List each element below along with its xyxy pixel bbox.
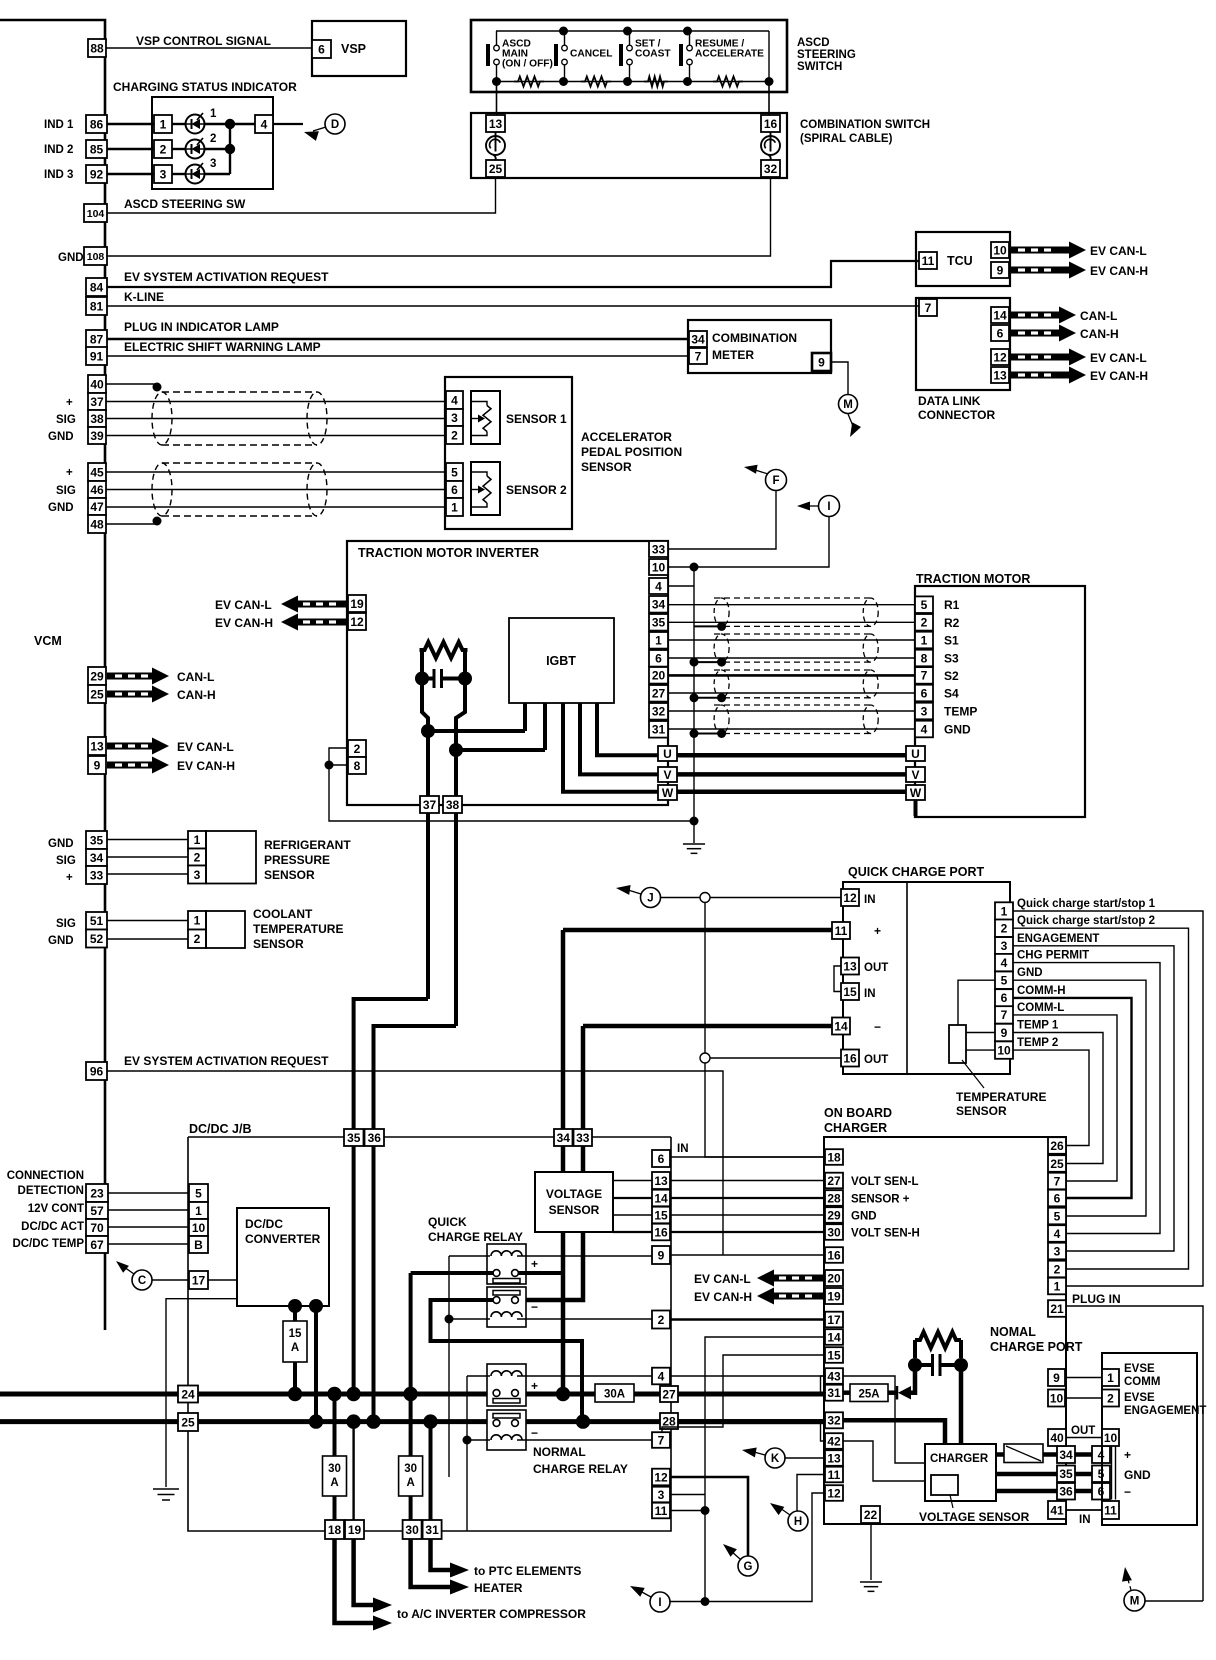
spiral cable symbol right (761, 132, 780, 160)
junction bus25 converter (309, 1414, 323, 1428)
arrow from K (754, 1452, 765, 1455)
pin QCP 5 (995, 972, 1013, 989)
svg-text:25: 25 (489, 162, 503, 176)
wire sensor2 SIG (46) (106, 489, 446, 491)
pin OBC 34 (1057, 1446, 1075, 1463)
pin VSP 6 (312, 40, 331, 58)
svg-text:12V CONT: 12V CONT (28, 1203, 84, 1215)
shield tube TM S1/S3 (714, 634, 878, 662)
pin TM 1 (S1) (915, 632, 933, 649)
pin OBC right 7 (1048, 1173, 1066, 1190)
svg-text:W: W (662, 786, 674, 800)
wire TM row 20-7 S2 (668, 674, 915, 677)
IGBT box U2 (509, 618, 614, 703)
pin TMI W (658, 785, 677, 800)
svg-text:7: 7 (658, 1433, 665, 1447)
svg-text:5: 5 (921, 598, 928, 612)
potentiometer sensor 2 (471, 462, 500, 515)
svg-text:38: 38 (446, 798, 460, 812)
pin OBC left 20 (825, 1270, 843, 1286)
svg-text:COMM-H: COMM-H (1017, 985, 1066, 997)
svg-text:S3: S3 (944, 652, 959, 666)
pin TM W (906, 785, 925, 800)
svg-text:31: 31 (827, 1386, 841, 1400)
pin DLC 6 (991, 325, 1009, 341)
pin TMI 1 (649, 632, 668, 649)
pin OBC left 32 (825, 1412, 843, 1428)
relay normal charge + (coil top) (487, 1364, 526, 1406)
relay normal charge - (coil bottom) (487, 1410, 526, 1450)
pin OBC left 19 (825, 1288, 843, 1304)
svg-text:SWITCH: SWITCH (797, 61, 842, 73)
pin TMI V (658, 767, 677, 782)
svg-text:47: 47 (90, 500, 104, 514)
svg-text:TEMPERATURE: TEMPERATURE (956, 1090, 1046, 1104)
svg-text:PLUG IN INDICATOR LAMP: PLUG IN INDICATOR LAMP (124, 320, 279, 334)
svg-text:32: 32 (764, 162, 778, 176)
wire node37 to IGBT leg1 (428, 729, 525, 733)
bus wire 25 right segment (519, 1419, 827, 1424)
svg-text:R2: R2 (944, 616, 960, 630)
svg-text:GND: GND (1017, 967, 1043, 979)
wire J to QCP 12 (660, 897, 841, 899)
svg-text:CAN-H: CAN-H (1080, 327, 1119, 341)
arrow CAN-H from VCM 25 (107, 686, 169, 703)
svg-text:CONNECTOR: CONNECTOR (918, 408, 995, 422)
wire VCM52 to coolant 2 (107, 938, 188, 940)
svg-text:87: 87 (90, 332, 104, 346)
wire V phase TMI to motor (677, 772, 906, 777)
wire QC relay coil2 to drop (449, 1318, 490, 1320)
svg-text:−: − (1124, 1485, 1131, 1499)
svg-text:51: 51 (90, 914, 104, 928)
svg-text:CONNECTION: CONNECTION (7, 1170, 84, 1182)
svg-text:4: 4 (1001, 956, 1008, 970)
pin QCP 3 (995, 937, 1013, 954)
pin J/B 35 (344, 1129, 364, 1146)
voltage sensor box (J/B) (535, 1172, 613, 1232)
svg-text:IND 3: IND 3 (44, 169, 73, 181)
wire J/B31 to PTC arrow (431, 1539, 452, 1570)
svg-text:7: 7 (921, 669, 928, 683)
wire - corner down (581, 1026, 586, 1146)
wire IND2 (85 to CSI 2) (107, 148, 154, 150)
wire TM row 1-1 S1 (668, 639, 915, 641)
pin QCP 15 (841, 983, 859, 1000)
wire VCM23 to J/B 5 (108, 1192, 189, 1194)
svg-text:EV CAN-H: EV CAN-H (177, 759, 235, 773)
pin TMI 20 (649, 667, 668, 684)
shield tube TM R1/R2 (714, 598, 878, 626)
DC/DC converter box (237, 1208, 329, 1306)
pin VCM 86 (86, 115, 107, 133)
svg-text:84: 84 (90, 280, 104, 294)
wire TM row 27-6 S4 (668, 692, 915, 694)
pin VCM 81 (86, 297, 107, 315)
wire sensor1 + (37) (106, 401, 446, 403)
svg-text:35: 35 (652, 616, 666, 630)
connector circle C (132, 1270, 152, 1290)
svg-text:to A/C INVERTER COMPRESSOR: to A/C INVERTER COMPRESSOR (397, 1607, 586, 1621)
svg-text:2: 2 (451, 428, 458, 442)
svg-text:A: A (406, 1477, 414, 1489)
svg-text:EVSE: EVSE (1124, 1392, 1155, 1404)
wire IGBT leg3 to W (563, 703, 658, 792)
svg-text:25: 25 (90, 687, 104, 701)
pin TMI 10 (649, 559, 668, 575)
svg-text:VOLT SEN-H: VOLT SEN-H (851, 1228, 920, 1240)
arrow EV CAN-L into OBC 20 (757, 1270, 825, 1287)
svg-text:12: 12 (843, 891, 857, 905)
wire charger out 36 row (996, 1489, 1057, 1494)
wire J/B 4 to OBC 43 (670, 1375, 825, 1377)
svg-text:11: 11 (922, 254, 935, 268)
wire TMI 8 tie down to ground rail (329, 765, 694, 821)
pin TCU 9 (991, 262, 1009, 278)
wire relay1 contact right to VS tap (519, 1271, 564, 1275)
pin OBC right 26 (1048, 1137, 1066, 1154)
pin VCM 25 (88, 685, 106, 703)
pin APP 2 (446, 426, 463, 444)
pin APP 5 (446, 463, 463, 481)
svg-text:REFRIGERANT: REFRIGERANT (264, 838, 351, 852)
pin J/B 28 (660, 1413, 678, 1429)
pin CSI 2 (154, 140, 172, 158)
pin OBC right 5 (1048, 1208, 1066, 1225)
bracket QCP 13-15 (834, 966, 841, 992)
pin OBC right 6 (1048, 1190, 1066, 1207)
pin VCM 84 (86, 278, 107, 296)
connector circle F (766, 470, 787, 491)
svg-text:I: I (658, 1597, 661, 1609)
svg-text:13: 13 (843, 959, 857, 973)
wire + out of voltage sensor down to bus24 tap (561, 1232, 566, 1394)
svg-text:M: M (843, 399, 853, 411)
svg-text:S2: S2 (944, 669, 959, 683)
pin VCM 67 (86, 1236, 108, 1253)
wire J/B 2 to OBC 17 (670, 1318, 825, 1321)
svg-text:35: 35 (347, 1131, 361, 1145)
svg-text:16: 16 (764, 117, 778, 131)
bracket OBC 32 to 42 (821, 1420, 827, 1441)
svg-text:37: 37 (423, 798, 437, 812)
svg-text:30: 30 (827, 1225, 841, 1239)
junction bus25 relay2 jog (576, 1414, 590, 1428)
svg-text:14: 14 (654, 1191, 668, 1205)
svg-text:V: V (663, 768, 671, 782)
svg-text:COOLANT: COOLANT (253, 907, 313, 921)
wire shield drain tube3 (694, 697, 722, 699)
svg-text:SIG: SIG (56, 414, 76, 426)
svg-text:10: 10 (652, 560, 666, 574)
svg-text:43: 43 (827, 1369, 841, 1383)
svg-text:CHG PERMIT: CHG PERMIT (1017, 950, 1089, 962)
junction converter out left (288, 1299, 302, 1313)
junction LED1 common (225, 119, 235, 129)
pin TMI 31 (649, 721, 668, 738)
svg-text:2: 2 (658, 1313, 665, 1327)
svg-text:IGBT: IGBT (546, 654, 576, 668)
svg-text:CHARGER: CHARGER (824, 1121, 887, 1135)
pin NCP 4 (1092, 1446, 1110, 1463)
wire ELECTRIC SHIFT WARNING LAMP (VCM 91 to meter 7) (107, 355, 689, 357)
svg-text:25: 25 (181, 1415, 195, 1429)
svg-text:15: 15 (843, 985, 857, 999)
svg-text:A: A (330, 1477, 338, 1489)
pin OBC 35 (1057, 1466, 1075, 1483)
svg-text:19: 19 (827, 1289, 841, 1303)
svg-text:+: + (66, 397, 73, 409)
svg-text:1: 1 (1107, 1371, 1114, 1385)
junction snubber OBC right (954, 1358, 968, 1372)
pin TMI 35 (649, 614, 668, 631)
wire J/B 28 to OBC 32 (678, 1419, 826, 1424)
pin J/B 27 (660, 1386, 678, 1402)
svg-text:CAN-L: CAN-L (177, 670, 214, 684)
wire NC coil drop vertical (466, 1376, 468, 1531)
wire OBC35 to NCP5 (1075, 1472, 1092, 1477)
junction QC coil2 (445, 1315, 454, 1324)
pin OBC left 42 (825, 1433, 843, 1449)
arrow to D (304, 131, 319, 141)
svg-text:8: 8 (921, 651, 928, 665)
svg-text:24: 24 (181, 1387, 195, 1401)
svg-text:14: 14 (827, 1330, 841, 1344)
fuse 30A no.1 (323, 1456, 347, 1496)
svg-text:4: 4 (658, 1369, 665, 1383)
svg-text:COMBINATION SWITCH: COMBINATION SWITCH (800, 119, 930, 131)
pin VCM 23 (86, 1184, 108, 1202)
arrow EV CAN-L from DLC 12 (1010, 349, 1086, 366)
svg-text:SENSOR 2: SENSOR 2 (506, 483, 567, 497)
wire K to OBC 13 (785, 1457, 825, 1459)
svg-text:EV SYSTEM ACTIVATION REQUEST: EV SYSTEM ACTIVATION REQUEST (124, 270, 329, 284)
connector circle I bottom (650, 1592, 670, 1612)
pin J/B 18 (325, 1520, 344, 1539)
pin TM U (906, 746, 925, 761)
svg-text:(ON / OFF): (ON / OFF) (502, 59, 553, 70)
svg-text:DETECTION: DETECTION (18, 1185, 84, 1197)
arrow CAN-L from DLC 14 (1010, 307, 1076, 324)
pin refrigerant 1 (188, 831, 206, 849)
wire CSI 2 to LED2 (172, 148, 185, 150)
pin OBC left 12 (825, 1485, 843, 1501)
svg-text:G: G (744, 1561, 753, 1573)
pin J/B right 11 (652, 1503, 670, 1519)
capacitor snubber OBC (931, 1354, 934, 1376)
wire voltage sensor to J/B 13 (613, 1180, 652, 1182)
svg-text:GND: GND (58, 252, 84, 264)
svg-text:92: 92 (90, 167, 104, 181)
pin J/B 24 (178, 1386, 198, 1403)
svg-text:17: 17 (192, 1273, 206, 1287)
resistor ASCD R3 (644, 77, 668, 87)
svg-text:70: 70 (90, 1221, 104, 1235)
wire node37 down to pin 37 (426, 731, 430, 800)
junction shield 2 drain (153, 517, 162, 526)
svg-text:CONVERTER: CONVERTER (245, 1232, 321, 1246)
junction ASCD rail dots (559, 27, 568, 36)
svg-text:COMBINATION: COMBINATION (712, 331, 797, 345)
pin TMI 34 (649, 596, 668, 613)
svg-text:13: 13 (90, 739, 104, 753)
on board charger box (824, 1137, 1066, 1524)
svg-text:6: 6 (1001, 991, 1008, 1005)
wire OBC41 to NCP11 (1066, 1509, 1102, 1511)
wire OBC10 to NCP2 EVSE ENGAGEMENT (1065, 1397, 1102, 1399)
wire H to OBC 11 (797, 1475, 825, 1512)
wire temp sensor to QCP 9 (966, 1032, 995, 1034)
connector circle H (788, 1511, 808, 1531)
svg-text:ACCELERATOR: ACCELERATOR (581, 430, 672, 444)
wire VCM51 to coolant 1 (107, 920, 188, 922)
pin CSI 3 (154, 165, 172, 183)
wire QC relay coil1 to drop (449, 1255, 490, 1257)
pin J/B 31 (423, 1520, 442, 1539)
wire charger out 35 row (996, 1472, 1057, 1477)
shield tube TM S2/S4 (714, 670, 878, 698)
wire relay1 contact left to bus24 riser (411, 1271, 493, 1275)
wire NC coil4 to drop (467, 1439, 490, 1441)
wire J/B 16 to OBC 30 VOLT SEN-H (670, 1231, 825, 1233)
bus wire 24 left segment (0, 1392, 493, 1397)
svg-text:88: 88 (90, 41, 104, 55)
svg-text:9: 9 (997, 263, 1004, 277)
pin APP 3 (446, 409, 463, 426)
TCU box (916, 232, 1010, 286)
svg-text:J: J (647, 893, 653, 905)
pin OBC left 11 (825, 1467, 843, 1483)
wire LED outputs common (204, 123, 255, 125)
svg-text:41: 41 (1050, 1503, 1064, 1517)
svg-text:19: 19 (348, 1523, 362, 1537)
svg-text:1: 1 (1054, 1279, 1061, 1293)
wire IGBT leg5 to U (597, 703, 658, 755)
svg-text:40: 40 (90, 377, 104, 391)
pin OBC 22 (861, 1506, 880, 1523)
wire OBC 42 internal to charger (843, 1441, 925, 1481)
pin VCM 96 (86, 1062, 107, 1080)
pin TMI 32 (649, 703, 668, 720)
svg-text:25: 25 (1050, 1157, 1064, 1171)
LED 1 (186, 108, 218, 134)
svg-text:36: 36 (368, 1131, 382, 1145)
wire J/B 13 to OBC 27 VOLT SEN-L (670, 1180, 825, 1182)
svg-text:85: 85 (90, 142, 104, 156)
wire bus24 relay1 and 30A fuse 2 vertical (409, 1273, 413, 1456)
fuse 15A (283, 1321, 307, 1362)
svg-text:GND: GND (48, 935, 74, 947)
wire QCP 10 TEMP 2 to on-board charger (1013, 1050, 1089, 1145)
junction ground rail (690, 817, 699, 826)
wire ground drop (693, 821, 695, 843)
junction bus24 pin35 feed (346, 1387, 360, 1401)
svg-text:9: 9 (658, 1248, 665, 1262)
wire OBC36 to NCP6 (1075, 1489, 1092, 1494)
svg-text:33: 33 (90, 868, 104, 882)
svg-text:12: 12 (654, 1470, 668, 1484)
svg-text:S4: S4 (944, 687, 959, 701)
wire voltage sensor to J/B 16 (613, 1231, 652, 1233)
arrow EV CAN-H from DLC 13 (1010, 367, 1086, 384)
junction TMI10/ground branch (690, 563, 699, 572)
svg-text:GND: GND (48, 431, 74, 443)
svg-text:21: 21 (1050, 1302, 1064, 1316)
svg-text:28: 28 (827, 1191, 841, 1205)
pin VCM 108 (84, 247, 107, 265)
charger box (925, 1444, 996, 1501)
pin meter 7 (689, 348, 707, 364)
svg-text:34: 34 (1059, 1448, 1073, 1462)
wire ASCD to combination switch 16 (768, 82, 770, 116)
relay quick charge - (coil bottom) (487, 1287, 526, 1327)
pin J/B right 4 (652, 1368, 670, 1385)
wire QCP 5 GND to on-board charger (1013, 980, 1146, 1216)
wire converter ground stub (166, 1299, 237, 1487)
svg-text:2: 2 (1107, 1391, 1114, 1405)
svg-text:1: 1 (194, 833, 201, 847)
wire sensor1 GND (39) (106, 435, 446, 437)
wire IGBT leg2 (543, 703, 547, 750)
svg-text:DATA LINK: DATA LINK (918, 394, 981, 408)
svg-text:ASCD: ASCD (797, 37, 830, 49)
svg-text:10: 10 (997, 1043, 1011, 1057)
svg-text:VSP CONTROL SIGNAL: VSP CONTROL SIGNAL (136, 34, 271, 48)
wire J/B19 to A/C compressor arrow 1 (354, 1539, 374, 1605)
wire - into QCP 14 (583, 1024, 832, 1029)
svg-text:EV CAN-H: EV CAN-H (1090, 369, 1148, 383)
pin J/B right 2 (652, 1311, 670, 1329)
junction bus24 15A (288, 1387, 302, 1401)
wire QCP 6 COMM-H to on-board charger (1013, 998, 1132, 1198)
wire + through J/B 34 into voltage sensor (561, 1146, 566, 1172)
pin J/B right 15 (652, 1207, 670, 1224)
svg-text:14: 14 (834, 1019, 848, 1033)
svg-text:6: 6 (655, 652, 662, 666)
svg-text:ACCELERATE: ACCELERATE (695, 49, 764, 60)
resistor ASCD R2 (581, 77, 611, 87)
svg-text:SIG: SIG (56, 485, 76, 497)
svg-text:12: 12 (827, 1486, 841, 1500)
shield tube accelerator sensor 2 (152, 463, 327, 516)
pointer voltage sensor (charger) (950, 1495, 953, 1508)
svg-text:−: − (874, 1020, 881, 1034)
svg-text:39: 39 (90, 429, 104, 443)
svg-text:10: 10 (993, 243, 1007, 257)
wire snubber left leg to node 37 (422, 679, 428, 732)
svg-text:28: 28 (662, 1414, 676, 1428)
combination switch (spiral cable) box (471, 113, 787, 178)
pin DLC 7 (919, 299, 937, 316)
pin TM 4 (GND) (915, 721, 933, 738)
svg-text:35: 35 (1059, 1467, 1073, 1481)
svg-text:ON BOARD: ON BOARD (824, 1106, 892, 1120)
junction LED2 common (225, 144, 235, 154)
svg-text:DC/DC TEMP: DC/DC TEMP (12, 1238, 84, 1250)
quick charge port box (843, 882, 1010, 1074)
data link connector box (916, 298, 1010, 390)
svg-text:36: 36 (1059, 1485, 1073, 1499)
accelerator pedal position sensor outer box (445, 377, 572, 529)
pin VCM 52 (86, 930, 107, 948)
pin TMI 19 (348, 595, 366, 612)
svg-text:VCM: VCM (34, 634, 62, 648)
pin J/B right 16 (652, 1224, 670, 1241)
svg-text:SENSOR +: SENSOR + (851, 1194, 910, 1206)
pin OBC left 31 (825, 1385, 843, 1401)
svg-text:6: 6 (1054, 1191, 1061, 1205)
pin TMI 33 (649, 541, 668, 557)
